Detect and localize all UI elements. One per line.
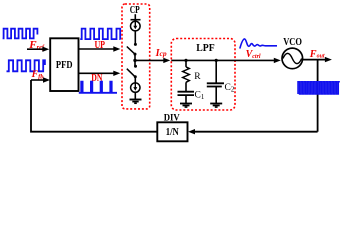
svg-text:DIV: DIV	[164, 113, 180, 123]
svg-text:LPF: LPF	[196, 43, 214, 54]
svg-text:R: R	[194, 72, 201, 82]
svg-text:PFD: PFD	[56, 60, 73, 71]
svg-text:Icp: Icp	[155, 48, 167, 59]
svg-text:C2: C2	[225, 83, 235, 94]
svg-text:C1: C1	[195, 90, 205, 101]
svg-text:VCO: VCO	[283, 37, 302, 48]
svg-text:1/N: 1/N	[166, 127, 179, 138]
